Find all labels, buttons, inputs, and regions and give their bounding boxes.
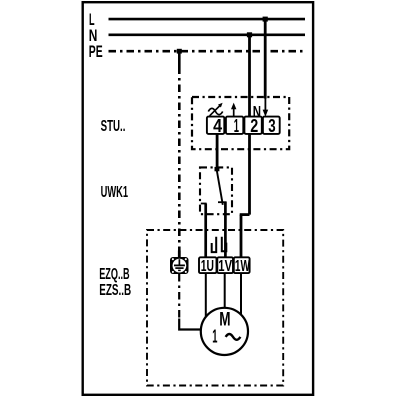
switch pivot dot (215, 167, 220, 171)
svg-text:1W: 1W (235, 258, 250, 275)
UWK1 enclosure dash-dot box (200, 167, 232, 214)
hook symbol left (jumper at 1U) (212, 237, 217, 252)
motor terminal 1U (199, 257, 217, 273)
symbol crossed sine over terminal 4 (208, 108, 222, 114)
switch left fixed contact (201, 203, 207, 205)
wire PE drop solid end into earth terminal (178, 251, 181, 259)
drawing frame (83, 2, 313, 395)
wire N jog horizontal (240, 213, 250, 216)
STU terminal 2 (244, 117, 261, 134)
STU terminal 4 (207, 117, 224, 134)
wire earth corner to motor (179, 319, 201, 330)
earth symbol inside terminal (178, 259, 180, 265)
STU enclosure dash-dot box (192, 97, 289, 149)
switch right fixed contact (218, 201, 227, 203)
wire 1V to motor (224, 273, 226, 308)
earth terminal block (170, 257, 189, 274)
wire N continuation below STU (248, 134, 251, 215)
wire PE drop solid stub (178, 51, 181, 66)
wire left contact down to 1U (204, 204, 207, 259)
svg-text:4: 4 (213, 116, 222, 136)
motor terminal 1W (234, 257, 250, 273)
svg-text:1: 1 (234, 116, 239, 136)
bus line L (109, 18, 306, 21)
svg-text:1: 1 (212, 327, 217, 347)
svg-text:M: M (219, 308, 230, 330)
arrow down over terminal 3 (264, 98, 266, 111)
svg-text:3: 3 (268, 116, 275, 136)
motor label tilde (226, 334, 241, 340)
junction dot on N (247, 32, 252, 37)
wire earth dash-dot down (178, 274, 180, 320)
STU terminal 1 (226, 117, 243, 134)
svg-text:STU..: STU.. (101, 118, 126, 135)
junction dot on L (263, 17, 268, 22)
wire from terminal 4 down to UWK1 (216, 134, 219, 170)
wire 1U to motor (205, 273, 207, 317)
wire right contact down to 1V (224, 202, 227, 258)
svg-text:2: 2 (250, 116, 258, 136)
wire N drop to STU terminal 2 (248, 35, 251, 118)
switch blade (217, 170, 223, 205)
wire L drop to STU terminal 3 (264, 19, 267, 98)
svg-text:PE: PE (89, 43, 103, 61)
wire PE drop dash-dot (178, 67, 181, 251)
EZQ/EZS enclosure dash-dot box (147, 230, 283, 386)
wire 1W to motor (240, 273, 242, 315)
svg-text:EZS..B: EZS..B (99, 282, 131, 299)
arrow up over terminal 1 (233, 108, 235, 117)
motor terminal 1V (217, 257, 233, 273)
svg-text:1U: 1U (201, 258, 214, 275)
svg-text:EZQ..B: EZQ..B (99, 266, 129, 283)
STU terminal 3 (263, 117, 280, 134)
bus line N (109, 33, 306, 36)
motor M1~ circle (201, 308, 248, 355)
bus line PE (dash-dot) (109, 50, 306, 53)
hook symbol right (jumper at 1V) (222, 237, 227, 252)
svg-text:1V: 1V (218, 258, 232, 275)
svg-text:UWK1: UWK1 (101, 184, 128, 201)
junction dot on PE (177, 49, 182, 54)
wire N down to 1W (240, 215, 243, 258)
